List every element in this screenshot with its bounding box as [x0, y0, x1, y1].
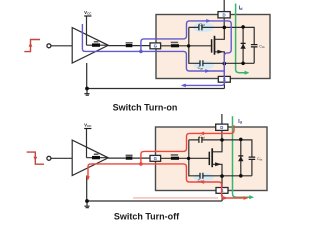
svg-text:Cds: Cds: [259, 44, 265, 48]
svg-text:Switch Turn-off: Switch Turn-off: [114, 212, 180, 222]
svg-text:D: D: [223, 12, 226, 17]
svg-text:Id: Id: [238, 119, 242, 125]
svg-text:VCC: VCC: [84, 123, 92, 129]
svg-text:Id: Id: [239, 6, 243, 12]
svg-text:Cds: Cds: [257, 157, 263, 161]
svg-text:Cgs: Cgs: [198, 66, 204, 70]
svg-text:D: D: [220, 125, 223, 130]
svg-text:Cgd: Cgd: [199, 23, 205, 27]
svg-text:VCC: VCC: [84, 10, 92, 16]
svg-text:Switch Turn-on: Switch Turn-on: [113, 103, 178, 113]
svg-text:Cgd: Cgd: [199, 135, 205, 139]
